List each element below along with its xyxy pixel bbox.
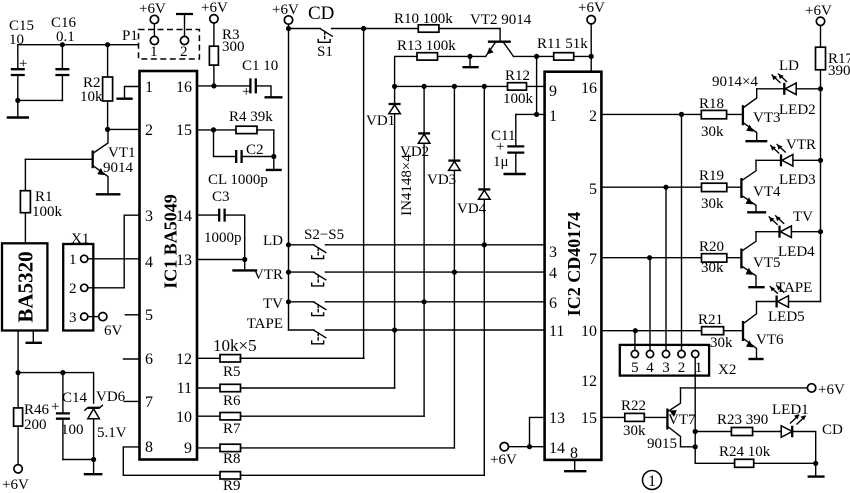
node junction VTR bus bbox=[286, 270, 291, 275]
svg-text:R21: R21 bbox=[698, 312, 723, 328]
svg-text:6: 6 bbox=[145, 351, 153, 368]
svg-text:R9: R9 bbox=[223, 478, 241, 493]
svg-text:CD: CD bbox=[308, 3, 334, 24]
ground VT5 bbox=[748, 286, 764, 288]
node junction bus top bbox=[286, 26, 291, 31]
svg-text:R11 51k: R11 51k bbox=[537, 36, 588, 52]
node junction rail C14 bbox=[60, 370, 65, 375]
LED LED1 (CD) bbox=[772, 402, 816, 463]
resistor R21 30k bbox=[698, 312, 743, 351]
wire IC1 pin 8 loop to R9 bbox=[123, 447, 220, 475]
svg-text:TV: TV bbox=[793, 209, 813, 225]
resistor R7 bbox=[197, 413, 424, 438]
svg-text:R1: R1 bbox=[35, 189, 53, 205]
svg-text:VT2 9014: VT2 9014 bbox=[470, 12, 532, 28]
ground VT2 emitter bbox=[462, 56, 478, 67]
resistor R8 bbox=[197, 444, 454, 467]
svg-text:+: + bbox=[19, 56, 27, 72]
wire VTR row bbox=[289, 271, 545, 273]
ground below BA5320 bbox=[26, 331, 42, 343]
node junction pin2 bus bbox=[679, 112, 684, 117]
terminal +6V top right bbox=[805, 3, 832, 25]
LED LED3 (VTR) bbox=[756, 137, 821, 188]
svg-text:VT1: VT1 bbox=[108, 145, 136, 161]
svg-text:4: 4 bbox=[646, 360, 654, 376]
svg-text:10k×5: 10k×5 bbox=[213, 336, 257, 355]
svg-text:9014×4: 9014×4 bbox=[712, 74, 758, 90]
transistor VT5 bbox=[741, 232, 780, 287]
P1 pin 2 with top bar bbox=[176, 14, 193, 60]
wire bus X2 pin2 bbox=[681, 114, 683, 350]
resistor R1 bbox=[20, 159, 62, 243]
LED LED2 (LD) bbox=[757, 58, 821, 118]
svg-text:CL 1000p: CL 1000p bbox=[208, 172, 268, 188]
svg-text:1μ: 1μ bbox=[493, 154, 509, 170]
node junction VTR/VD3 bbox=[452, 270, 457, 275]
resistor R3 bbox=[209, 23, 244, 86]
resistor R2 bbox=[80, 45, 113, 130]
node junction row VD3 bbox=[452, 84, 457, 89]
IC1 pin 5 stub bbox=[125, 314, 139, 316]
svg-text:LD: LD bbox=[263, 233, 283, 249]
node junction C15 bottom bbox=[15, 98, 20, 103]
X1 pin 2 bbox=[69, 281, 88, 297]
X1 pin 1 bbox=[69, 252, 88, 268]
wire LD row bbox=[289, 244, 545, 246]
IC1 pin 7 stub bbox=[124, 400, 139, 402]
svg-text:15: 15 bbox=[176, 122, 192, 139]
ground after C1 bbox=[256, 86, 283, 97]
svg-text:+6V: +6V bbox=[139, 1, 166, 17]
svg-text:100k: 100k bbox=[503, 91, 534, 107]
svg-text:3: 3 bbox=[69, 310, 77, 326]
svg-text:R23 390: R23 390 bbox=[717, 412, 768, 428]
capacitor C1 bbox=[242, 58, 278, 100]
resistor R9 bbox=[220, 472, 484, 493]
svg-text:30k: 30k bbox=[701, 196, 724, 212]
svg-text:9: 9 bbox=[549, 83, 557, 100]
svg-text:R20: R20 bbox=[699, 239, 724, 255]
wire CD bus vertical bbox=[240, 29, 364, 359]
node junction LD/VD4 bbox=[482, 242, 487, 247]
svg-text:10k: 10k bbox=[80, 89, 103, 105]
X2 pin 5 bbox=[631, 350, 639, 376]
svg-text:VT6: VT6 bbox=[756, 332, 784, 348]
wire reset vertical to IC2 pin1 bbox=[537, 56, 545, 114]
op-amp U IC2 CD40174 box bbox=[545, 72, 602, 460]
resistor R24 10k bbox=[719, 444, 816, 467]
svg-text:S1: S1 bbox=[317, 44, 333, 60]
ground below C3 bbox=[232, 260, 257, 271]
svg-text:VTR: VTR bbox=[253, 267, 283, 283]
diode VD4 bbox=[457, 86, 490, 475]
resistor R17 390 bbox=[816, 26, 850, 302]
ground below C15 bbox=[7, 100, 29, 117]
resistor R6 bbox=[197, 384, 395, 409]
resistor R19 30k bbox=[699, 168, 741, 212]
wire IC2 pin7 row to R20 bbox=[601, 257, 701, 259]
svg-text:15: 15 bbox=[581, 410, 597, 427]
ground VT1 emitter bbox=[96, 193, 121, 195]
svg-text:+: + bbox=[496, 139, 504, 155]
node junction rail LED4 bbox=[818, 229, 823, 234]
IC1 pin 1 ground bbox=[116, 87, 139, 99]
svg-text:1: 1 bbox=[150, 44, 158, 60]
X1 pin 3 bbox=[69, 310, 88, 326]
svg-text:LED3: LED3 bbox=[779, 172, 816, 188]
svg-text:30k: 30k bbox=[710, 335, 733, 351]
svg-text:300: 300 bbox=[222, 39, 245, 55]
wire IC1 pin16 row bbox=[197, 85, 250, 87]
svg-text:200: 200 bbox=[24, 417, 47, 433]
X2 pin 3 bbox=[662, 350, 670, 376]
svg-text:14: 14 bbox=[549, 440, 565, 457]
svg-text:16: 16 bbox=[176, 79, 192, 96]
svg-text:CD: CD bbox=[822, 422, 843, 438]
op-amp U IC1 BA5049 box bbox=[140, 71, 198, 460]
node junction pin1 bbox=[534, 112, 539, 117]
node junction R24/LED1 bbox=[813, 461, 818, 466]
terminal +6V above R3 bbox=[201, 0, 228, 23]
svg-text:+6V: +6V bbox=[805, 3, 832, 19]
svg-text:R7: R7 bbox=[223, 421, 241, 437]
svg-text:VTR: VTR bbox=[786, 137, 816, 153]
transistor VT2 9014 bbox=[470, 12, 532, 56]
svg-text:100k: 100k bbox=[32, 204, 63, 220]
node junction collector bbox=[693, 444, 698, 449]
ground VT3 bbox=[745, 140, 767, 142]
svg-text:R18: R18 bbox=[699, 96, 724, 112]
svg-text:LED1: LED1 bbox=[772, 402, 809, 418]
IC1 pin numbers left bbox=[145, 79, 153, 456]
svg-text:TAPE: TAPE bbox=[247, 316, 283, 332]
svg-text:X1: X1 bbox=[71, 231, 89, 247]
svg-text:3: 3 bbox=[145, 208, 153, 225]
svg-text:5: 5 bbox=[589, 181, 597, 198]
wire bus X2 pin3 bbox=[665, 187, 667, 350]
svg-text:LED2: LED2 bbox=[779, 102, 816, 118]
svg-text:7: 7 bbox=[589, 251, 597, 268]
wire X1 pin1 to IC1 pin4 bbox=[88, 258, 140, 260]
resistor R23 390 bbox=[695, 412, 781, 436]
terminal +6V at IC2 pin14 bbox=[490, 443, 517, 469]
svg-text:7: 7 bbox=[145, 394, 153, 411]
svg-text:R6: R6 bbox=[223, 393, 241, 409]
svg-text:1000p: 1000p bbox=[204, 230, 242, 246]
transistor VT6 bbox=[743, 302, 784, 359]
wire pin2 row IC1 bbox=[108, 128, 140, 130]
wire VT2 emitter row / R13 row bbox=[438, 55, 486, 57]
node junction R2 top bbox=[105, 42, 110, 47]
svg-text:9015: 9015 bbox=[647, 436, 677, 452]
node junction R11 right bbox=[589, 54, 594, 59]
node junction row VD2 bbox=[422, 84, 427, 89]
svg-text:R10 100k: R10 100k bbox=[394, 11, 453, 27]
switch S2 bbox=[312, 245, 326, 259]
terminal +6V right middle bbox=[807, 382, 845, 398]
wire pin13 loop bbox=[530, 417, 545, 446]
wire bus X2 pin5 bbox=[634, 331, 636, 351]
node junction pin15 bbox=[211, 127, 216, 132]
wire IC2 pin2 row to R18 bbox=[601, 113, 701, 115]
wire IC2 pin5 row to R19 bbox=[601, 186, 701, 188]
svg-text:11: 11 bbox=[177, 380, 192, 397]
svg-text:R4 39k: R4 39k bbox=[229, 109, 273, 125]
svg-text:+6V: +6V bbox=[2, 477, 29, 493]
IC BA5320 block bbox=[2, 243, 47, 330]
figure number 1 bbox=[643, 471, 662, 491]
switch S5 bbox=[312, 330, 326, 344]
svg-text:LED5: LED5 bbox=[768, 309, 805, 325]
transistor VT3 bbox=[743, 89, 781, 141]
wire X1 pin2 to IC1 pin3 bbox=[88, 215, 140, 288]
svg-text:13: 13 bbox=[176, 252, 192, 269]
wire supply rail R46/C14/VD6 bbox=[18, 373, 94, 403]
svg-text:390: 390 bbox=[828, 63, 850, 79]
svg-text:LED4: LED4 bbox=[778, 244, 815, 260]
transistor VT7 9015 bbox=[647, 388, 696, 452]
svg-text:1: 1 bbox=[549, 108, 557, 125]
svg-text:+6V: +6V bbox=[818, 382, 845, 398]
svg-text:4: 4 bbox=[145, 254, 153, 271]
svg-text:IC2 CD40174: IC2 CD40174 bbox=[564, 212, 584, 317]
wire diode summing row bbox=[395, 85, 508, 87]
svg-text:10: 10 bbox=[9, 32, 24, 48]
wire X2 pin1 down bbox=[694, 358, 696, 464]
svg-text:6: 6 bbox=[549, 295, 557, 312]
wire IC1 pin15 row bbox=[197, 129, 236, 131]
svg-text:C14: C14 bbox=[62, 390, 88, 406]
LED LED5 (TAPE) bbox=[757, 280, 821, 325]
svg-text:8: 8 bbox=[145, 439, 153, 456]
node junction pin13/14 bbox=[527, 444, 532, 449]
svg-text:R8: R8 bbox=[223, 451, 241, 467]
svg-text:R19: R19 bbox=[699, 168, 724, 184]
svg-text:3: 3 bbox=[549, 244, 557, 261]
wire top-left rail to P1 bbox=[18, 44, 139, 46]
resistor R46 bbox=[14, 373, 50, 465]
svg-text:2: 2 bbox=[678, 360, 686, 376]
wire TAPE row bbox=[289, 329, 545, 331]
ground VT4 bbox=[747, 211, 766, 213]
svg-text:1: 1 bbox=[648, 473, 656, 490]
capacitor C2 (CL 1000p) bbox=[208, 130, 274, 188]
svg-text:5: 5 bbox=[631, 360, 639, 376]
svg-text:R5: R5 bbox=[223, 364, 241, 380]
node junction row VD1 bbox=[392, 84, 397, 89]
svg-text:R46: R46 bbox=[24, 402, 50, 418]
svg-text:0.1: 0.1 bbox=[56, 29, 75, 45]
wire VT2 collector row bbox=[514, 55, 554, 57]
svg-text:+: + bbox=[242, 84, 250, 100]
IC2 pin numbers right bbox=[570, 80, 597, 462]
terminal 6V at X1 pin3 bbox=[88, 313, 123, 340]
diode VD2 bbox=[400, 86, 430, 416]
node junction pin5 bus bbox=[663, 185, 668, 190]
wire IC2 pin15 row bbox=[601, 416, 624, 418]
capacitor C14 bbox=[51, 373, 88, 460]
ground VT6 bbox=[748, 358, 763, 360]
svg-text:2: 2 bbox=[589, 108, 597, 125]
svg-text:3: 3 bbox=[662, 360, 670, 376]
node junction pin7 bus bbox=[647, 255, 652, 260]
svg-text:5.1V: 5.1V bbox=[97, 425, 127, 441]
switch S1 bbox=[289, 29, 364, 61]
svg-text:+6V: +6V bbox=[272, 2, 299, 18]
wire TV row bbox=[289, 301, 545, 303]
connector X1 bbox=[63, 231, 93, 331]
svg-text:13: 13 bbox=[549, 410, 565, 427]
ground below R4/C2 bbox=[266, 157, 282, 170]
node junction C2 right bbox=[271, 154, 276, 159]
node junction emitter ground bbox=[467, 54, 472, 59]
svg-text:1: 1 bbox=[69, 252, 77, 268]
resistor R11 51k bbox=[537, 36, 591, 60]
node junction rail LED2 bbox=[818, 86, 823, 91]
svg-text:R13 100k: R13 100k bbox=[397, 38, 456, 54]
svg-text:30k: 30k bbox=[701, 124, 724, 140]
node junction C16 top bbox=[60, 42, 65, 47]
svg-text:1: 1 bbox=[145, 79, 153, 96]
IC2 pin numbers left bbox=[549, 83, 565, 457]
capacitor C16 bbox=[51, 15, 77, 100]
svg-text:VT7: VT7 bbox=[668, 412, 696, 428]
svg-text:TAPE: TAPE bbox=[776, 280, 812, 296]
svg-text:2: 2 bbox=[69, 281, 77, 297]
node junction TV bus bbox=[286, 299, 291, 304]
wire R11 junction to IC2 pin16 bbox=[590, 56, 592, 71]
wire +6V bus vertical bbox=[288, 24, 290, 330]
svg-text:30k: 30k bbox=[701, 260, 724, 276]
svg-text:2: 2 bbox=[180, 44, 188, 60]
capacitor C11 1u bbox=[491, 114, 537, 173]
transistor VT4 bbox=[741, 160, 781, 212]
node junction row VD4 bbox=[482, 84, 487, 89]
resistor R20 30k bbox=[699, 239, 741, 276]
X2 pin 4 bbox=[646, 350, 654, 376]
svg-text:LD: LD bbox=[779, 58, 799, 74]
wire BA5320 down to supply rail bbox=[17, 331, 19, 373]
resistor R4 39k bbox=[229, 109, 274, 157]
node junction rail R46 bbox=[16, 370, 21, 375]
P1 pin 1 bbox=[150, 24, 158, 60]
svg-text:+: + bbox=[51, 399, 59, 415]
terminal +6V above P1 bbox=[139, 1, 166, 24]
node junction collector/R11 bbox=[534, 54, 539, 59]
node junction R3 bottom bbox=[211, 83, 216, 88]
ground LED1 bbox=[808, 463, 825, 476]
svg-text:R24 10k: R24 10k bbox=[719, 444, 771, 460]
resistor R22 30k bbox=[621, 398, 667, 439]
node junction pin10 bus bbox=[633, 328, 638, 333]
node junction R2 bottom bbox=[105, 127, 110, 132]
wire IC1 pin13 row bbox=[197, 259, 245, 261]
svg-text:2: 2 bbox=[145, 122, 153, 139]
svg-text:P1: P1 bbox=[122, 28, 138, 44]
svg-text:X2: X2 bbox=[718, 362, 736, 378]
zener diode VD6 5.1V bbox=[85, 389, 127, 460]
ground below VD6 bbox=[84, 460, 103, 475]
resistor R18 30k bbox=[699, 96, 743, 140]
capacitor C15 bbox=[9, 18, 34, 100]
wire pin14 row bbox=[509, 446, 545, 448]
wire VT7 emitter +6V row bbox=[681, 387, 808, 389]
terminal +6V above IC2 bbox=[578, 0, 605, 56]
terminal +6V bottom left bbox=[2, 465, 29, 493]
ground IC2 pin8 bbox=[564, 460, 586, 471]
resistor R12 100k bbox=[503, 68, 545, 107]
wire VT7 collector to node bbox=[681, 446, 696, 448]
svg-text:+6V: +6V bbox=[578, 0, 605, 16]
capacitor C3 bbox=[197, 189, 245, 260]
node junction VD6 bottom bbox=[91, 457, 96, 462]
svg-text:S2−S5: S2−S5 bbox=[304, 227, 344, 243]
diode VD3 bbox=[427, 86, 460, 448]
svg-text:BA5320: BA5320 bbox=[14, 251, 38, 322]
svg-text:R12: R12 bbox=[505, 68, 530, 84]
svg-text:9: 9 bbox=[184, 440, 192, 457]
connector X2 box bbox=[620, 345, 737, 378]
svg-text:10: 10 bbox=[176, 409, 192, 426]
X2 pin 1 bbox=[692, 350, 703, 376]
svg-text:4: 4 bbox=[549, 265, 557, 282]
node junction TV/VD2 bbox=[422, 299, 427, 304]
resistor R10 100k bbox=[364, 11, 501, 41]
wire bottom rail C14-VD6 bbox=[63, 459, 94, 461]
node junction rail LED3 bbox=[818, 158, 823, 163]
svg-text:VD3: VD3 bbox=[427, 172, 456, 188]
svg-text:VD1: VD1 bbox=[366, 113, 395, 129]
wire C15-C16 bottom bbox=[18, 99, 63, 101]
svg-text:100: 100 bbox=[61, 422, 84, 438]
svg-text:16: 16 bbox=[581, 80, 597, 97]
svg-text:C3: C3 bbox=[212, 189, 230, 205]
terminal +6V switch bus bbox=[272, 2, 299, 24]
node junction C3 bottom bbox=[242, 257, 247, 262]
svg-text:10: 10 bbox=[581, 323, 597, 340]
node junction LD bus bbox=[286, 242, 291, 247]
svg-text:+6V: +6V bbox=[490, 452, 517, 468]
svg-text:C1 10: C1 10 bbox=[242, 58, 278, 74]
switch S4 bbox=[312, 302, 326, 316]
wire IC2 pin10 row to R21 bbox=[601, 330, 701, 332]
svg-text:VT5: VT5 bbox=[753, 255, 781, 271]
transistor VT1 bbox=[25, 129, 135, 194]
IC1 pin 6 stub bbox=[124, 358, 140, 360]
IC1 pin numbers right bbox=[176, 79, 192, 457]
svg-text:TV: TV bbox=[263, 296, 283, 312]
ground below C11 bbox=[504, 173, 526, 175]
wire bus X2 pin4 bbox=[649, 258, 651, 351]
switch S3 bbox=[312, 272, 326, 286]
X2 pin 2 bbox=[678, 350, 686, 376]
resistor R5 bbox=[197, 355, 364, 380]
node junction TAPE/VD1 bbox=[392, 327, 397, 332]
diode VD1 bbox=[366, 86, 401, 388]
svg-text:C2: C2 bbox=[246, 142, 264, 158]
node junction R23 bbox=[693, 429, 698, 434]
svg-text:11: 11 bbox=[549, 323, 564, 340]
node junction S1 right bbox=[361, 26, 366, 31]
svg-text:5: 5 bbox=[145, 307, 153, 324]
LED LED4 (TV) bbox=[756, 209, 821, 260]
svg-text:30k: 30k bbox=[623, 423, 646, 439]
svg-text:12: 12 bbox=[176, 351, 192, 368]
svg-text:IN4148×4: IN4148×4 bbox=[399, 154, 415, 216]
svg-text:12: 12 bbox=[581, 373, 597, 390]
svg-text:R22: R22 bbox=[621, 398, 646, 414]
wire R24 row left bbox=[695, 462, 734, 464]
